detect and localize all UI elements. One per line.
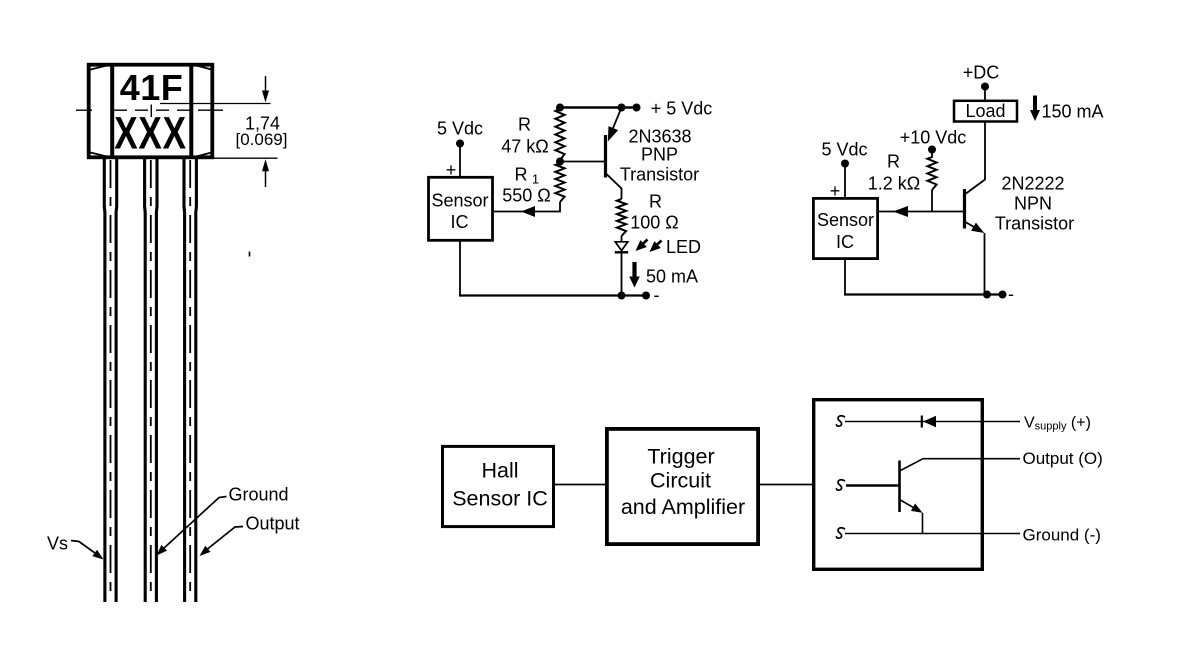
svg-text:-: - [1008, 284, 1014, 304]
svg-text:+ 5 Vdc: + 5 Vdc [651, 99, 713, 119]
svg-text:Sensor IC: Sensor IC [452, 487, 548, 511]
svg-text:R: R [518, 115, 531, 135]
svg-text:R: R [887, 152, 900, 172]
svg-text:1.2 kΩ: 1.2 kΩ [868, 174, 920, 194]
svg-text:550 Ω: 550 Ω [502, 186, 551, 206]
svg-text:2N3638: 2N3638 [628, 127, 691, 147]
svg-text:R: R [515, 165, 528, 185]
svg-text:-: - [654, 285, 660, 305]
svg-text:Transistor: Transistor [620, 165, 699, 185]
svg-text:IC: IC [836, 232, 854, 252]
svg-text:Load: Load [965, 101, 1005, 121]
svg-text:Output (O): Output (O) [1023, 449, 1103, 468]
svg-text:41F: 41F [120, 67, 184, 108]
svg-text:2N2222: 2N2222 [1001, 174, 1064, 194]
svg-text:Trigger: Trigger [647, 445, 714, 469]
svg-text:+DC: +DC [963, 63, 1000, 83]
svg-text:1: 1 [532, 172, 539, 187]
svg-text:IC: IC [451, 212, 469, 232]
svg-text:Ground (-): Ground (-) [1023, 526, 1101, 545]
svg-text:Hall: Hall [481, 459, 518, 483]
svg-text:5 Vdc: 5 Vdc [437, 119, 483, 139]
svg-text:50 mA: 50 mA [646, 267, 698, 287]
svg-text:150 mA: 150 mA [1041, 102, 1103, 122]
svg-text:Transistor: Transistor [995, 214, 1074, 234]
svg-text:47 kΩ: 47 kΩ [501, 137, 548, 157]
svg-text:Vs: Vs [47, 534, 68, 554]
svg-text:PNP: PNP [641, 145, 678, 165]
svg-text:[0.069]: [0.069] [236, 130, 288, 149]
svg-text:Output: Output [245, 514, 299, 534]
svg-text:5 Vdc: 5 Vdc [821, 140, 867, 160]
svg-text:R: R [649, 192, 662, 212]
svg-text:Sensor: Sensor [431, 191, 488, 211]
svg-text:100 Ω: 100 Ω [630, 213, 679, 233]
svg-text:Sensor: Sensor [817, 210, 874, 230]
svg-text:and Amplifier: and Amplifier [621, 495, 745, 519]
svg-text:Circuit: Circuit [650, 469, 711, 493]
svg-text:Ground: Ground [228, 485, 288, 505]
svg-text:LED: LED [666, 237, 701, 257]
svg-text:NPN: NPN [1014, 194, 1052, 214]
svg-text:XXX: XXX [114, 107, 187, 158]
svg-text:+10 Vdc: +10 Vdc [900, 128, 967, 148]
